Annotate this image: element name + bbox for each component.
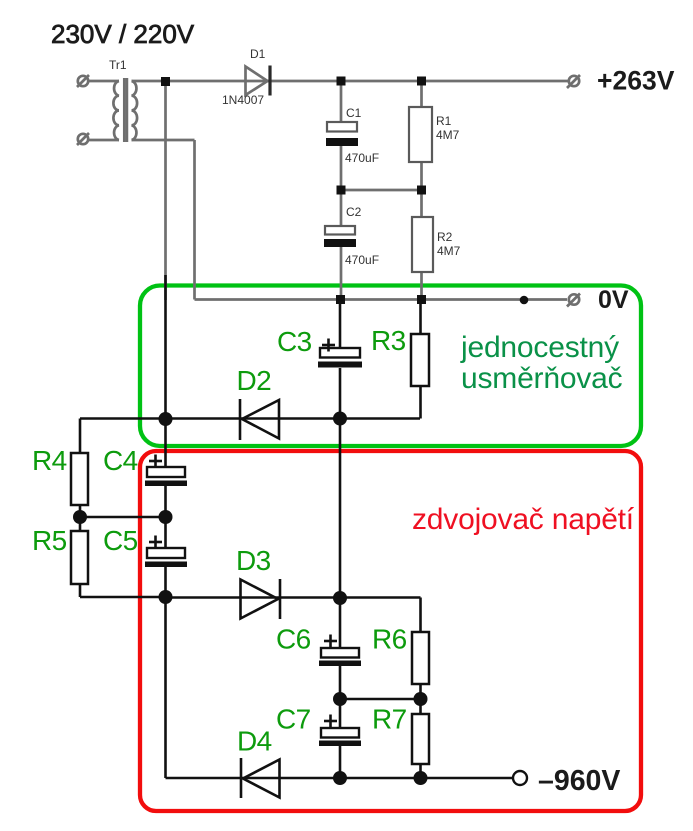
svg-text:C6: C6 <box>276 624 311 655</box>
svg-text:R6: R6 <box>372 624 407 655</box>
svg-text:R1: R1 <box>436 114 452 128</box>
svg-text:4M7: 4M7 <box>437 244 461 258</box>
svg-text:+263V: +263V <box>597 66 675 96</box>
svg-text:C5: C5 <box>103 525 138 556</box>
svg-text:470uF: 470uF <box>345 151 379 165</box>
svg-text:R7: R7 <box>372 704 407 735</box>
svg-text:1N4007: 1N4007 <box>222 93 264 107</box>
svg-text:D2: D2 <box>237 365 272 396</box>
svg-text:R5: R5 <box>32 525 67 556</box>
svg-text:C4: C4 <box>103 445 138 476</box>
svg-text:C2: C2 <box>346 205 362 219</box>
svg-text:R3: R3 <box>371 325 406 356</box>
svg-text:–960V: –960V <box>538 765 620 797</box>
svg-text:470uF: 470uF <box>345 253 379 267</box>
svg-text:230V / 220V: 230V / 220V <box>51 19 195 49</box>
svg-text:R2: R2 <box>437 230 453 244</box>
svg-text:4M7: 4M7 <box>436 128 460 142</box>
svg-text:Tr1: Tr1 <box>109 58 127 72</box>
svg-text:D3: D3 <box>236 545 271 576</box>
svg-text:D1: D1 <box>250 47 266 61</box>
svg-text:C7: C7 <box>276 704 311 735</box>
svg-text:zdvojovač napětí: zdvojovač napětí <box>412 503 635 536</box>
svg-text:D4: D4 <box>237 726 272 757</box>
svg-text:R4: R4 <box>32 445 67 476</box>
svg-text:C3: C3 <box>277 326 312 357</box>
svg-text:C1: C1 <box>346 106 362 120</box>
svg-text:jednocestný: jednocestný <box>460 331 619 364</box>
svg-text:usměrňovač: usměrňovač <box>461 362 623 395</box>
svg-text:0V: 0V <box>598 286 629 314</box>
